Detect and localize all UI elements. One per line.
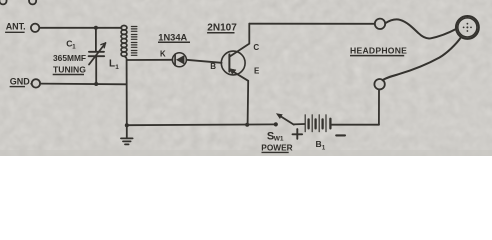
battery minus sign xyxy=(336,134,345,136)
wire bus battery to terminal xyxy=(332,124,379,126)
terminal headphone bottom xyxy=(374,79,384,89)
wire coil tap to diode xyxy=(127,59,172,61)
headphone cord bottom xyxy=(383,37,461,80)
headphone earpiece xyxy=(456,16,479,39)
inductor L1 winding xyxy=(121,26,127,61)
svg-text:B: B xyxy=(316,139,322,149)
capacitor C1 plates xyxy=(89,51,104,53)
svg-text:B: B xyxy=(210,62,216,71)
headphone cord top xyxy=(385,19,456,38)
svg-text:365MMF: 365MMF xyxy=(53,53,86,63)
svg-text:1: 1 xyxy=(115,64,119,71)
partial terminal circle top-left B xyxy=(29,0,36,4)
battery plus sign xyxy=(293,133,303,135)
transistor emitter lead with arrow xyxy=(229,69,248,124)
ground symbol xyxy=(126,125,128,138)
svg-text:TUNING: TUNING xyxy=(53,65,86,75)
terminal GND xyxy=(32,79,40,87)
svg-text:K: K xyxy=(160,49,166,58)
wire ANT to coil top xyxy=(39,27,121,29)
battery B1 plates xyxy=(305,115,326,132)
wire GND to coil bottom xyxy=(40,83,126,86)
switch SW1 contact xyxy=(274,122,278,126)
wire switch to battery xyxy=(294,123,305,125)
node junction ground bus xyxy=(125,123,129,127)
svg-text:HEADPHONE: HEADPHONE xyxy=(350,45,407,55)
wire C1 top lead xyxy=(95,28,97,52)
transistor collector lead xyxy=(229,24,249,57)
svg-text:L: L xyxy=(109,59,115,70)
diode 1N34A body xyxy=(172,53,186,67)
transistor Q1 2N107 body xyxy=(221,51,245,75)
faint scan streak bottom xyxy=(0,150,492,156)
partial terminal circle top-left A xyxy=(0,0,7,4)
svg-text:GND.: GND. xyxy=(10,76,33,86)
wire bottom bus xyxy=(127,123,276,126)
terminal ANT xyxy=(31,24,39,32)
wire C1 bottom lead xyxy=(95,56,97,84)
terminal headphone top xyxy=(375,19,385,29)
switch SW1 blade xyxy=(281,116,294,124)
inductor L1 core dashes xyxy=(131,27,137,56)
svg-text:C: C xyxy=(253,43,259,52)
node junction emitter/bus xyxy=(245,123,249,127)
wire diode to base xyxy=(186,60,221,63)
svg-text:1N34A: 1N34A xyxy=(158,32,187,42)
svg-text:POWER: POWER xyxy=(261,142,292,152)
capacitor C1 variable arrow xyxy=(89,43,106,65)
wire coil bottom down to ground bus xyxy=(126,60,128,125)
svg-text:ANT.: ANT. xyxy=(6,21,26,31)
svg-text:E: E xyxy=(254,67,260,76)
node junction GND/C1 xyxy=(94,82,98,86)
wire collector to headphone terminal xyxy=(249,23,374,25)
wire bottom terminal down xyxy=(378,89,380,124)
node junction ANT/C1 xyxy=(94,26,98,30)
paper background xyxy=(0,0,492,156)
